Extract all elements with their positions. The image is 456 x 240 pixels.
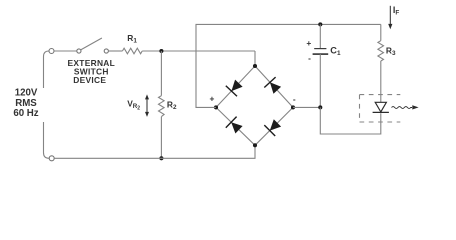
wire: C1 bottom lead down to negative node [319,54,321,107]
svg-text:-: - [293,94,296,104]
ac source left bracket (top hook) [44,51,49,88]
bridge arm: bottom-left [216,107,255,145]
switch throw (right contact) [104,49,108,53]
wire: C1 top lead [319,24,321,48]
svg-text:R3: R3 [386,46,396,58]
wire: bridge - to negative node [293,106,320,108]
wire: top wire drop to bridge top [254,51,256,66]
diode D4 (bottom-right arm, cathode toward bottom ac node) [264,119,281,136]
arrow: light emission squiggle [392,105,419,109]
svg-text:IF: IF [393,5,400,17]
bridge arm: top-right [255,66,293,107]
junction node: R1 / R2 [159,49,163,53]
bridge arm: bottom-right [255,107,293,145]
switch blade [81,38,102,50]
wire: positive bus (bridge + up and across top) [196,24,381,107]
junction node: negative bus [318,105,322,109]
diode D2 (bottom-left arm, cathode toward + node) [226,117,243,134]
wire: junction down to R2 [160,51,162,96]
capacitor C1 bottom plate [313,53,329,55]
arrow: IF current [388,6,392,30]
resistor R2 [159,96,165,117]
node: bridge top (ac) [253,64,257,68]
ac source left bracket (bottom hook) [44,122,49,158]
svg-text:-: - [308,53,311,63]
switch pole (left contact) [77,49,81,53]
led D5 triangle [375,102,386,112]
resistor R1 [122,48,142,54]
svg-text:+: + [209,93,214,103]
svg-text:R1: R1 [127,33,137,45]
wire: R1 to bridge top corner [142,50,255,52]
svg-text:+: + [306,38,311,48]
diode D3 (top-right arm, cathode toward top ac node) [264,77,281,94]
optocoupler dashed box [360,95,401,122]
wire: switch to R1 [108,50,122,52]
led D5 cathode bar [373,111,389,113]
svg-text:60 Hz: 60 Hz [13,108,38,119]
node: bridge bottom (ac) [253,143,257,147]
resistor R3 [378,41,384,61]
node: bridge right (-) [291,105,295,109]
svg-text:C1: C1 [330,46,341,58]
bridge arm: top-left [216,66,255,107]
wire: R3 top lead [380,24,382,40]
junction node: top rail / C1 [318,22,322,26]
junction node: R2 / bottom rail [159,156,163,160]
diode D1 (top-left arm, cathode toward + node) [226,80,243,97]
svg-text:VR2: VR2 [127,98,140,111]
wire: R2 to bottom rail [160,117,162,159]
wire: R3 to LED anode [380,61,382,102]
wire: bottom rail [54,145,255,158]
svg-text:R2: R2 [167,99,177,111]
node: bridge left (+) [214,105,218,109]
wire: negative return to LED cathode [320,107,381,134]
arrow: VR2 double-headed [145,94,149,117]
label EXTERNAL SWITCH DEVICE [68,58,116,85]
ac source terminal top [49,49,54,54]
capacitor C1 top plate [314,48,326,50]
wire: top terminal to switch [54,50,77,52]
label 120V RMS 60 Hz [13,88,38,119]
ac source terminal bottom [49,156,54,161]
svg-text:DEVICE: DEVICE [73,75,106,85]
